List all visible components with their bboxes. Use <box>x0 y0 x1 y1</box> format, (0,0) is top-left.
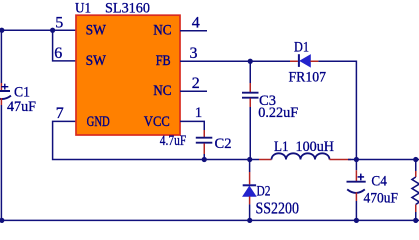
svg-text:4.7uF: 4.7uF <box>160 133 187 149</box>
node resistor bottom <box>413 218 418 223</box>
node C2 bottom <box>202 157 207 162</box>
pin 2 stub <box>180 90 207 92</box>
node C4 bottom <box>354 218 359 223</box>
svg-text:SW: SW <box>86 22 107 38</box>
svg-text:NC: NC <box>153 83 171 99</box>
wire <box>0 29 76 31</box>
wire D1 to output node <box>318 61 356 159</box>
svg-text:VCC: VCC <box>144 114 170 130</box>
svg-text:0.22uF: 0.22uF <box>258 105 298 121</box>
node pin5/6 branch <box>50 28 55 33</box>
wire <box>0 30 2 83</box>
capacitor C4 <box>347 160 399 221</box>
svg-text:5: 5 <box>55 15 63 32</box>
wire <box>0 105 2 220</box>
svg-text:3: 3 <box>190 45 198 62</box>
svg-text:470uF: 470uF <box>364 191 399 207</box>
node resistor top <box>413 157 418 162</box>
svg-text:D1: D1 <box>294 39 309 55</box>
svg-text:6: 6 <box>54 45 62 62</box>
svg-text:SS2200: SS2200 <box>256 198 300 217</box>
node D2 bottom <box>247 218 252 223</box>
resistor R right edge <box>412 160 419 221</box>
svg-text:C4: C4 <box>371 174 387 190</box>
svg-text:SW: SW <box>86 53 107 69</box>
svg-text:1: 1 <box>195 105 203 121</box>
svg-text:D2: D2 <box>257 183 271 199</box>
capacitor C3 <box>242 61 298 160</box>
svg-text:NC: NC <box>153 22 171 38</box>
svg-text:SL3160: SL3160 <box>105 1 150 17</box>
svg-text:L1: L1 <box>274 139 289 155</box>
svg-text:FB: FB <box>156 53 171 69</box>
wire pin6 branch <box>53 30 76 61</box>
wire VCC <box>180 121 204 130</box>
diode D2 SS2200 <box>243 160 299 221</box>
node D1/L1/C4 <box>354 157 359 162</box>
svg-text:U1: U1 <box>75 1 91 17</box>
svg-text:2: 2 <box>192 75 200 92</box>
capacitor C2 <box>160 130 232 160</box>
wire output rail left <box>204 159 259 161</box>
diode D1 FR107 <box>289 39 327 85</box>
svg-text:47uF: 47uF <box>7 99 36 115</box>
node top-left <box>0 28 4 33</box>
svg-text:GND: GND <box>87 114 110 130</box>
svg-text:100uH: 100uH <box>296 139 335 155</box>
node FB/C3 <box>248 59 253 64</box>
pin 4 stub <box>180 30 207 32</box>
svg-text:C2: C2 <box>215 136 232 152</box>
wire pin7/GND <box>53 121 204 159</box>
capacitor C1 <box>0 83 36 115</box>
inductor L1 100uH <box>259 139 351 160</box>
svg-text:FR107: FR107 <box>289 69 327 85</box>
svg-text:4: 4 <box>192 15 200 32</box>
wire output rail right <box>348 159 419 161</box>
node C3/D2/L1 <box>247 157 252 162</box>
node bottom-left <box>0 218 4 223</box>
wire FB <box>180 60 290 62</box>
svg-text:7: 7 <box>56 105 64 122</box>
wire bottom rail <box>0 219 419 221</box>
IC U1 SL3160 body <box>75 1 180 136</box>
